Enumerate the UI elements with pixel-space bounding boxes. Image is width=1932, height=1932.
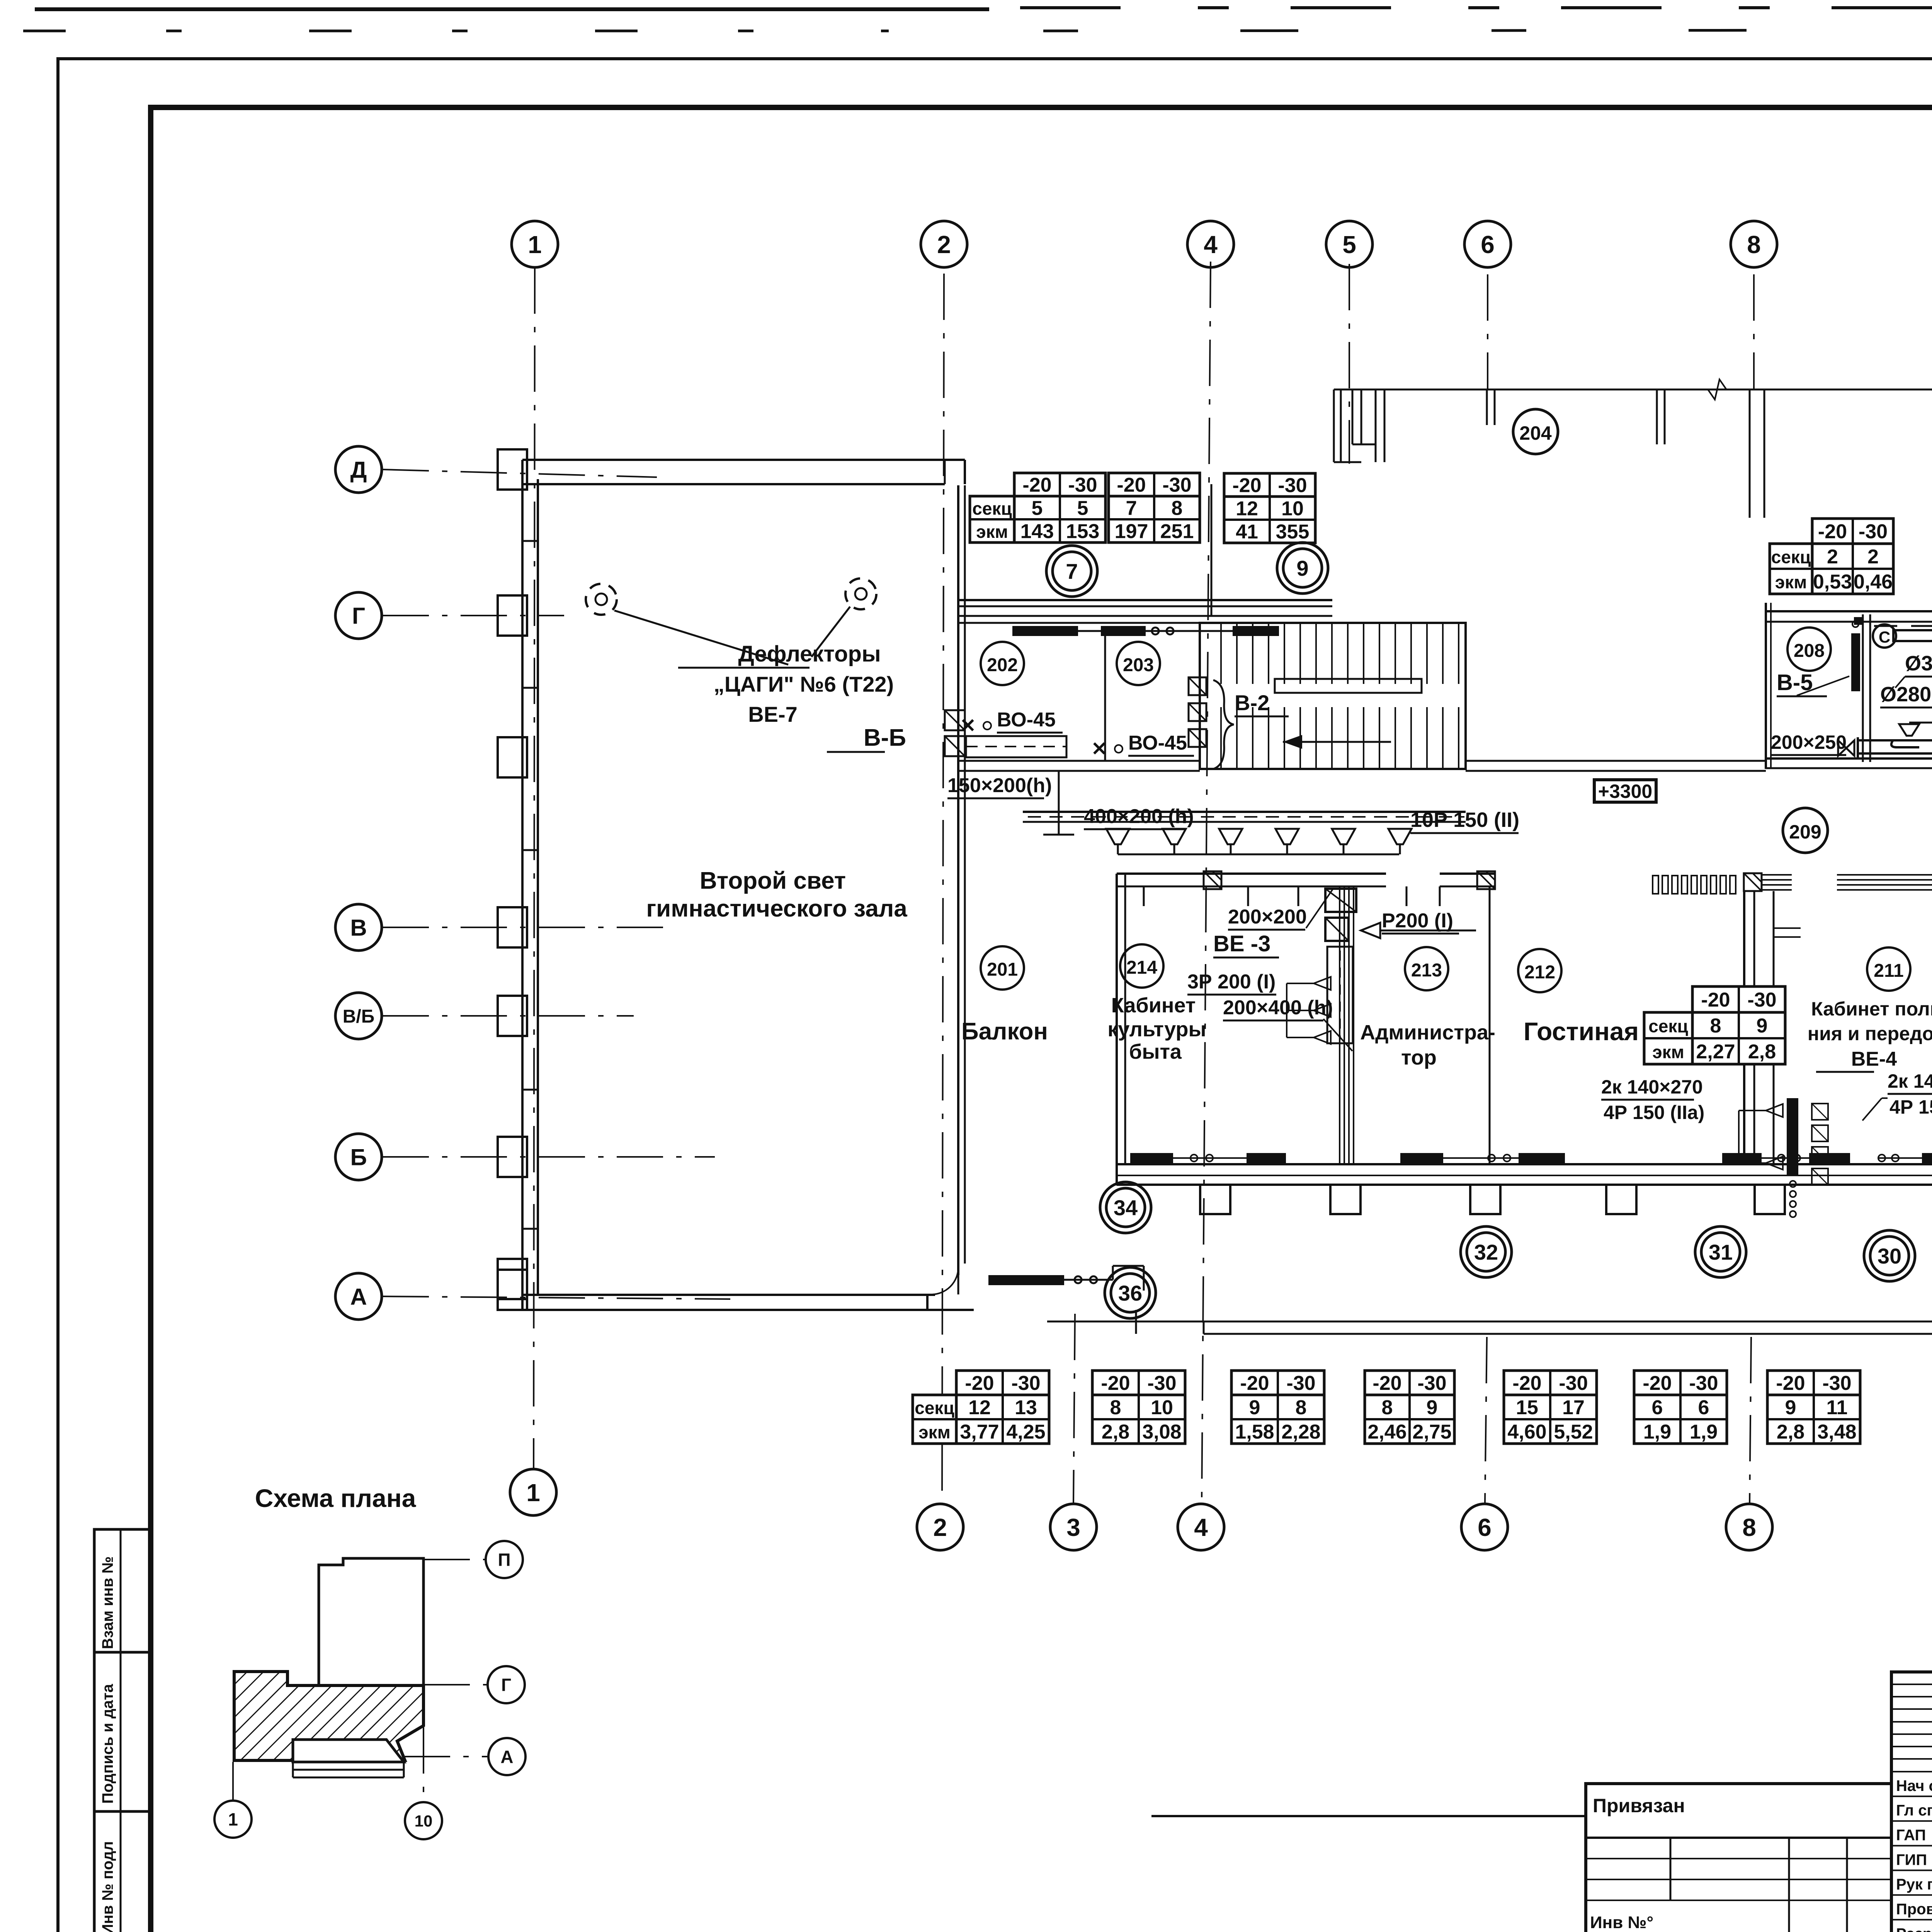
gym wall pilaster y2994 <box>498 1137 527 1177</box>
svg-text:3,08: 3,08 <box>1142 1421 1181 1443</box>
wing wall stub a <box>1656 389 1658 444</box>
svg-text:-30: -30 <box>1747 989 1776 1011</box>
btable 15 17 460 552 <box>1504 1371 1597 1444</box>
axis A line left <box>383 1296 730 1299</box>
office radiator valves <box>1190 1155 1197 1162</box>
title staff names <box>1891 1771 1932 1772</box>
svg-text:1: 1 <box>228 1810 238 1830</box>
svg-text:Р200 (I): Р200 (I) <box>1382 910 1453 932</box>
deflector leader lines <box>614 611 788 665</box>
corridor funnels <box>1106 829 1129 844</box>
svg-text:ВЕ -3: ВЕ -3 <box>1213 931 1270 956</box>
page top edge solid line <box>35 7 989 11</box>
schema hatched body <box>234 1672 423 1760</box>
svg-text:2,46: 2,46 <box>1367 1421 1406 1443</box>
axis 4 line <box>1202 262 1211 1503</box>
wing break marks <box>1708 379 1726 400</box>
svg-text:ВЕ-7: ВЕ-7 <box>748 702 798 726</box>
room circle 201 <box>981 946 1024 990</box>
svg-text:3,48: 3,48 <box>1817 1421 1856 1443</box>
svg-text:быта: быта <box>1129 1040 1182 1063</box>
office bottom wall l1 <box>1117 1163 1932 1165</box>
partition 213-212 <box>1489 886 1491 1164</box>
svg-text:ГАП: ГАП <box>1896 1827 1926 1844</box>
room circle 212 <box>1518 949 1561 992</box>
office radiator 5 <box>1722 1153 1762 1163</box>
schema axis G <box>488 1666 525 1703</box>
svg-text:-30: -30 <box>1011 1372 1040 1395</box>
svg-text:ГИП: ГИП <box>1896 1851 1927 1868</box>
comb marks <box>1653 876 1658 894</box>
svg-text:Гл спец: Гл спец <box>1896 1802 1932 1819</box>
svg-text:„ЦАГИ" №6 (Т22): „ЦАГИ" №6 (Т22) <box>714 672 894 696</box>
duct top dashed line <box>1874 625 1932 627</box>
svg-text:1,9: 1,9 <box>1690 1421 1718 1443</box>
radiator valves 202 <box>1152 628 1159 634</box>
arrow P200 <box>1361 923 1380 938</box>
svg-text:-20: -20 <box>1643 1372 1672 1395</box>
svg-text:-30: -30 <box>1559 1372 1588 1395</box>
gym wall pilaster y2400 <box>498 907 527 947</box>
schema tall block <box>319 1558 423 1685</box>
svg-text:8: 8 <box>1742 1514 1756 1541</box>
system circle 31 <box>1695 1226 1746 1277</box>
room circle 208 <box>1787 628 1831 671</box>
svg-text:36: 36 <box>1118 1281 1142 1305</box>
diffuser row line <box>1909 722 1932 724</box>
table sekc 8 9 227 28 <box>1692 986 1785 1064</box>
stair left treads <box>1220 623 1222 684</box>
svg-text:Ø280: Ø280 <box>1880 683 1931 706</box>
svg-text:11: 11 <box>1827 1396 1848 1419</box>
svg-text:4,25: 4,25 <box>1006 1421 1045 1443</box>
svg-text:Рук гр: Рук гр <box>1896 1876 1932 1893</box>
svg-text:9: 9 <box>1249 1396 1260 1419</box>
wing left niche walls <box>1333 389 1335 462</box>
svg-text:Разраб: Разраб <box>1896 1925 1932 1932</box>
svg-text:4,60: 4,60 <box>1507 1421 1546 1443</box>
wing wall axis8 <box>1749 389 1751 518</box>
svg-text:П: П <box>498 1550 510 1570</box>
svg-text:2,75: 2,75 <box>1412 1421 1451 1443</box>
svg-text:7: 7 <box>1066 559 1078 583</box>
duct room partition <box>1862 614 1864 762</box>
axis circle 2 bottom <box>917 1504 963 1550</box>
svg-text:экм: экм <box>1775 572 1807 592</box>
office column 3 <box>1470 1185 1500 1214</box>
svg-text:Дефлекторы: Дефлекторы <box>738 641 881 667</box>
stair left outer <box>1200 623 1466 769</box>
svg-text:ВО-45: ВО-45 <box>1128 732 1187 754</box>
svg-text:ВЕ-4: ВЕ-4 <box>1851 1048 1897 1070</box>
page top edge dashes right <box>1020 6 1932 9</box>
svg-text:12: 12 <box>1236 498 1258 520</box>
schema base lines <box>293 1769 404 1771</box>
leader 200x400 <box>1323 1019 1352 1051</box>
svg-text:6: 6 <box>1652 1396 1663 1419</box>
svg-text:-30: -30 <box>1859 520 1888 543</box>
svg-text:12: 12 <box>968 1396 991 1419</box>
page top edge dash row 2 <box>23 30 889 32</box>
svg-text:-20: -20 <box>1240 1372 1269 1395</box>
axis 3 line <box>1073 1314 1075 1503</box>
circle C supply <box>1873 624 1896 648</box>
privyazan rows <box>1586 1858 1891 1859</box>
svg-text:Второй свет: Второй свет <box>700 867 846 894</box>
btable 8 9 246 275 <box>1365 1371 1454 1444</box>
office column 4 <box>1606 1185 1636 1214</box>
schema axis 10 <box>405 1802 442 1839</box>
svg-text:Г: Г <box>501 1675 511 1695</box>
room208 top wall <box>1766 610 1932 612</box>
valve bowtie <box>1838 740 1854 756</box>
svg-text:1,9: 1,9 <box>1643 1421 1671 1443</box>
axis circle Г left <box>335 592 382 639</box>
svg-text:0,53: 0,53 <box>1813 571 1852 593</box>
office bottom wall l3 <box>1117 1184 1932 1186</box>
axis circle 1 top <box>512 221 558 267</box>
room circle 209 <box>1783 808 1828 853</box>
svg-text:153: 153 <box>1066 520 1100 543</box>
office radiator 3 <box>1400 1153 1443 1163</box>
gym top wall end cap <box>964 460 966 484</box>
svg-text:6: 6 <box>1481 231 1495 259</box>
svg-text:0,46: 0,46 <box>1854 571 1893 593</box>
corridor duct lines <box>1023 811 1466 813</box>
svg-text:10Р 150 (II): 10Р 150 (II) <box>1410 808 1519 832</box>
svg-text:41: 41 <box>1236 521 1258 543</box>
axis circle 3 bottom <box>1050 1504 1097 1550</box>
svg-text:211: 211 <box>1874 961 1903 981</box>
btable 9 8 158 228 <box>1231 1371 1324 1444</box>
svg-text:Г: Г <box>352 603 365 629</box>
vestibule divider wall <box>1211 484 1213 616</box>
office radiator 1 <box>1130 1153 1173 1163</box>
axis circle Д left <box>335 446 382 493</box>
svg-text:✕: ✕ <box>960 715 976 736</box>
svg-text:214: 214 <box>1126 957 1157 978</box>
svg-text:8: 8 <box>1296 1396 1307 1419</box>
svg-text:культуры: культуры <box>1107 1018 1206 1041</box>
svg-text:9: 9 <box>1785 1396 1796 1419</box>
svg-text:200×400 (h): 200×400 (h) <box>1223 997 1333 1019</box>
svg-text:5,52: 5,52 <box>1554 1421 1593 1443</box>
margin box inv n podl <box>94 1811 151 1932</box>
office radiator 2 <box>1247 1153 1286 1163</box>
stair left arrow <box>1283 741 1391 743</box>
svg-text:3,77: 3,77 <box>960 1421 999 1443</box>
svg-text:-20: -20 <box>1232 474 1261 497</box>
room circle 211 <box>1867 947 1910 991</box>
axis circle 6 top <box>1464 221 1511 267</box>
svg-text:1,58: 1,58 <box>1235 1421 1274 1443</box>
balcony bottom step wall <box>926 1295 929 1310</box>
vent grille boxes left <box>945 710 965 730</box>
svg-text:203: 203 <box>1123 655 1154 675</box>
diffusers five <box>1899 724 1919 736</box>
wing bottom wall <box>1766 757 1932 760</box>
svg-text:Пров: Пров <box>1896 1901 1932 1918</box>
gym top wall outer <box>522 459 965 461</box>
svg-text:-30: -30 <box>1822 1372 1851 1395</box>
balcony door arc <box>931 1267 958 1294</box>
svg-text:4: 4 <box>1204 231 1218 259</box>
svg-text:9: 9 <box>1757 1015 1768 1037</box>
svg-text:30: 30 <box>1878 1244 1901 1268</box>
door ticks top wall <box>1143 886 1145 906</box>
table sekc 5 5 <box>1014 473 1105 543</box>
axis circle В left <box>335 904 382 951</box>
system circle 36 <box>1105 1267 1156 1318</box>
arrows 3P200 <box>1314 977 1331 990</box>
v5 leader <box>1797 676 1849 696</box>
svg-text:2,28: 2,28 <box>1281 1421 1320 1443</box>
axis 5 line <box>1349 264 1350 464</box>
svg-text:2,27: 2,27 <box>1696 1041 1735 1063</box>
balcony radiator <box>988 1275 1064 1285</box>
svg-text:-20: -20 <box>1818 520 1847 543</box>
svg-text:-30: -30 <box>1278 474 1307 497</box>
partition 212-211 wall <box>1743 891 1745 1164</box>
svg-text:4Р 150 (IIа): 4Р 150 (IIа) <box>1604 1102 1704 1123</box>
privyazan shelf line <box>1151 1815 1586 1817</box>
vestibule left wall <box>957 485 959 600</box>
svg-text:204: 204 <box>1519 422 1552 444</box>
gym corner pilaster bottom <box>498 1270 527 1310</box>
terrace line lower <box>1204 1333 1932 1335</box>
gym bottom wall inner <box>522 1294 935 1296</box>
room circle 202 <box>981 642 1024 685</box>
corridor top wall right of stair <box>1466 760 1766 762</box>
office top wall c multiline <box>1762 874 1792 876</box>
v2 brace <box>1213 680 1234 769</box>
axis circle А left <box>335 1273 382 1320</box>
svg-text:ния и передового опыта: ния и передового опыта <box>1808 1023 1932 1044</box>
partition stub <box>1774 927 1801 929</box>
table sekc 2 2 053 046 <box>1812 519 1893 594</box>
label box +3300 corridor <box>1594 780 1656 802</box>
privyazan box frame <box>1586 1784 1891 1932</box>
page top edge dash row 2b <box>1043 29 1932 31</box>
duct 250x400 bottom run <box>1859 739 1932 742</box>
office radiator 6 <box>1809 1153 1850 1163</box>
svg-text:В-Б: В-Б <box>864 724 906 751</box>
system circle 7 <box>1046 546 1097 597</box>
stair left wall right <box>1464 623 1467 769</box>
gym left wall inner <box>537 479 539 1295</box>
svg-text:Инв №°: Инв №° <box>1590 1913 1653 1932</box>
main duct 208 <box>1893 630 1932 641</box>
svg-text:2: 2 <box>933 1514 947 1541</box>
rooms202 inner top wall <box>958 615 1332 617</box>
axis 6 line <box>1487 274 1488 390</box>
svg-text:А: А <box>350 1284 367 1310</box>
terrace line upper <box>1047 1321 1932 1323</box>
VE-3 dashed duct <box>1327 947 1353 1043</box>
gym wall pilaster y1960 <box>498 737 527 777</box>
schema white trapezoid <box>293 1740 404 1762</box>
svg-text:212: 212 <box>1524 962 1555 983</box>
svg-text:8: 8 <box>1747 231 1761 259</box>
margin box vzam inv <box>94 1529 151 1652</box>
wing top wall line <box>1334 389 1932 391</box>
VE-3 duct boxes <box>1325 889 1356 912</box>
svg-text:-20: -20 <box>1701 989 1730 1011</box>
duct VO-45 dashed <box>966 736 1066 757</box>
btable 12 13 377 425 <box>956 1371 1049 1444</box>
room circle 213 <box>1405 947 1448 990</box>
riser bar V-5 <box>1851 633 1860 691</box>
stair left landing rail <box>1275 679 1422 693</box>
svg-text:-30: -30 <box>1147 1372 1176 1395</box>
duct wall VE-3 <box>1339 886 1340 1164</box>
svg-text:экм: экм <box>976 522 1008 542</box>
svg-text:секц: секц <box>972 498 1012 519</box>
svg-text:Балкон: Балкон <box>961 1018 1048 1045</box>
VE-4 riser bar <box>1787 1098 1798 1175</box>
btable 9 11 28 348 <box>1767 1371 1860 1444</box>
svg-text:2к 140×270: 2к 140×270 <box>1601 1076 1703 1098</box>
svg-text:-20: -20 <box>1776 1372 1805 1395</box>
svg-text:В: В <box>350 915 367 941</box>
axis G line left <box>383 615 564 616</box>
svg-text:355: 355 <box>1276 521 1310 543</box>
svg-text:секц: секц <box>1648 1016 1688 1036</box>
svg-text:5: 5 <box>1342 231 1356 259</box>
svg-text:Схема плана: Схема плана <box>255 1484 417 1512</box>
axis 1 line <box>534 267 535 1470</box>
VE-4 grille boxes <box>1812 1104 1828 1120</box>
svg-text:213: 213 <box>1411 960 1442 981</box>
svg-text:тор: тор <box>1401 1046 1437 1069</box>
rooms202 top wall <box>958 599 1332 601</box>
axis 2 line <box>942 274 944 1503</box>
gym window ticks <box>522 540 538 542</box>
svg-text:С: С <box>1879 628 1890 646</box>
svg-text:17: 17 <box>1562 1396 1585 1419</box>
svg-text:Ø355: Ø355 <box>1905 652 1932 675</box>
svg-text:251: 251 <box>1160 520 1194 543</box>
svg-text:209: 209 <box>1789 821 1821 843</box>
hatch column 2 <box>1477 871 1495 889</box>
table 12 10 41 355 <box>1224 473 1315 543</box>
duct drop line <box>1058 771 1060 835</box>
svg-text:экм: экм <box>918 1422 950 1442</box>
svg-text:9: 9 <box>1427 1396 1438 1419</box>
svg-text:-20: -20 <box>1117 474 1146 497</box>
gym wall pilaster y3310 <box>498 1259 527 1299</box>
rooms202 bottom wall <box>958 760 1200 762</box>
svg-text:10: 10 <box>1281 498 1304 520</box>
axis circle 8 top <box>1731 221 1777 267</box>
gym top wall inner <box>522 483 945 485</box>
room202 radiator <box>1012 626 1078 636</box>
room208 left wall <box>1765 603 1767 769</box>
svg-text:6: 6 <box>1698 1396 1709 1419</box>
gym wall pilaster y2629 <box>498 996 527 1036</box>
svg-text:15: 15 <box>1516 1396 1538 1419</box>
svg-text:4Р 150 (IIа): 4Р 150 (IIа) <box>1889 1096 1932 1118</box>
rooms divider 202-203 <box>1104 631 1106 761</box>
axis VB line left <box>383 1015 634 1017</box>
svg-text:34: 34 <box>1114 1196 1138 1220</box>
svg-text:2,8: 2,8 <box>1102 1421 1129 1443</box>
leader 200x200 <box>1306 889 1333 928</box>
svg-text:секц: секц <box>915 1398 954 1418</box>
svg-text:202: 202 <box>987 655 1018 675</box>
room circle 214 <box>1120 944 1163 988</box>
svg-text:201: 201 <box>987 959 1018 980</box>
axis circle 4 top <box>1187 221 1234 267</box>
svg-text:2,8: 2,8 <box>1748 1041 1776 1063</box>
svg-text:4: 4 <box>1194 1514 1208 1541</box>
svg-text:+3300: +3300 <box>1598 781 1652 802</box>
deflector symbol 2 <box>845 578 876 609</box>
svg-text:-30: -30 <box>1068 474 1097 497</box>
svg-text:ВО-45: ВО-45 <box>997 709 1056 731</box>
gym left wall outer <box>521 460 524 1310</box>
svg-text:2,8: 2,8 <box>1777 1421 1804 1443</box>
title staff table frame <box>1891 1672 1932 1932</box>
svg-text:8: 8 <box>1110 1396 1121 1419</box>
svg-text:9: 9 <box>1296 556 1308 580</box>
svg-text:Д: Д <box>350 457 367 483</box>
svg-text:2: 2 <box>1827 546 1838 568</box>
office radiator 7 <box>1922 1153 1932 1163</box>
svg-text:150×200(h): 150×200(h) <box>947 774 1052 797</box>
svg-text:Гостиная: Гостиная <box>1524 1017 1639 1046</box>
room circle 204 <box>1513 409 1558 454</box>
svg-text:3: 3 <box>1066 1514 1080 1541</box>
svg-text:экм: экм <box>1652 1042 1684 1062</box>
arrows 2k left pair <box>1766 1104 1783 1117</box>
svg-text:В-2: В-2 <box>1235 690 1269 715</box>
svg-text:1: 1 <box>526 1479 540 1507</box>
office top wall b <box>1440 872 1495 875</box>
svg-text:Взам инв №: Взам инв № <box>99 1556 116 1649</box>
terrace tick <box>1135 1310 1137 1334</box>
svg-text:5: 5 <box>1032 497 1043 520</box>
svg-text:-30: -30 <box>1286 1372 1315 1395</box>
svg-text:А: А <box>500 1747 513 1767</box>
svg-text:2к 140×270: 2к 140×270 <box>1888 1070 1932 1092</box>
axis circle 2 top <box>921 221 967 267</box>
office bottom wall l2 <box>1117 1175 1932 1176</box>
room203 radiator <box>1101 626 1146 636</box>
svg-text:Администра-: Администра- <box>1360 1021 1495 1044</box>
svg-text:2: 2 <box>937 231 951 259</box>
deflector symbol 1 <box>586 584 617 615</box>
hatch column 1 <box>1204 871 1221 889</box>
axis 8 line <box>1753 274 1755 390</box>
svg-text:-20: -20 <box>1101 1372 1130 1395</box>
svg-text:Привязан: Привязан <box>1593 1795 1685 1816</box>
axis V line left <box>383 927 676 928</box>
gym bottom wall outer <box>498 1309 935 1311</box>
axis circle 5 top <box>1326 221 1372 267</box>
balcony bottom jog <box>1112 1266 1114 1280</box>
gym wall pilaster y1215 <box>498 449 527 490</box>
wing wall stub b <box>1486 389 1488 425</box>
svg-text:143: 143 <box>1020 520 1054 543</box>
title staff 8 small rows <box>1891 1684 1932 1685</box>
svg-text:8: 8 <box>1710 1015 1721 1037</box>
axis circle 6 bottom <box>1461 1504 1508 1550</box>
office top wall d multiline <box>1837 874 1932 876</box>
gym wall pilaster y1593 <box>498 595 527 636</box>
btable 8 10 28 308 <box>1092 1371 1185 1444</box>
svg-text:Кабинет политпросвеще-: Кабинет политпросвеще- <box>1811 998 1932 1020</box>
